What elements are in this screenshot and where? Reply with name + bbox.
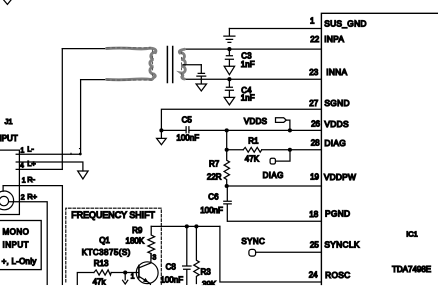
wire DIAG terminal to pin28	[276, 150, 290, 161]
wire shield to ground	[16, 162, 83, 171]
svg-text:22: 22	[310, 35, 319, 44]
node C4 junction	[227, 77, 231, 81]
node pin26/C5 junction	[225, 128, 229, 132]
svg-text:23: 23	[309, 68, 318, 77]
svg-text:R13: R13	[94, 259, 109, 268]
wire R13 to Q1 base	[111, 272, 139, 274]
wire link pin26 to pin28	[226, 130, 228, 149]
svg-text:C6: C6	[208, 192, 219, 201]
node R1 left junction	[225, 148, 229, 152]
power tag VDDS	[276, 118, 287, 123]
resistor R3	[194, 226, 199, 283]
wire C5 right to pin26	[189, 129, 321, 131]
svg-text:IC1: IC1	[406, 230, 418, 239]
capacitor (centre tap, unlabelled)	[197, 65, 206, 80]
ground under C3	[224, 66, 234, 74]
node Q1 base junction	[123, 270, 127, 274]
transformer T1 primary top lead	[62, 48, 107, 50]
svg-text:Q1: Q1	[99, 236, 110, 245]
svg-text:100nF: 100nF	[176, 134, 199, 143]
svg-text:INPUT: INPUT	[3, 241, 30, 250]
svg-text:1: 1	[20, 148, 24, 155]
transformer T1 secondary winding (grey)	[179, 49, 185, 79]
IC U1 box	[321, 13, 438, 284]
wire L+ row	[16, 168, 62, 170]
svg-text:SYNCLK: SYNCLK	[324, 240, 359, 250]
ground (input shield)	[78, 171, 88, 179]
wire INNA net (pin23)	[183, 78, 321, 80]
svg-text:R1: R1	[248, 137, 259, 146]
wire pin18 PGND	[228, 220, 322, 222]
svg-text:VDDS: VDDS	[244, 117, 267, 126]
transformer T1 primary bottom lead	[81, 79, 108, 81]
terminal DIAG (open square)	[270, 158, 275, 164]
svg-text:1: 1	[131, 274, 135, 281]
resistor R1	[243, 147, 262, 152]
resistor R7	[224, 150, 229, 186]
svg-text:VDDPW: VDDPW	[324, 172, 356, 182]
transformer T1 primary winding (grey)	[107, 48, 156, 80]
svg-text:1nF: 1nF	[241, 60, 255, 69]
ground under tap capacitor	[196, 79, 206, 91]
wire pin24 ROSC	[220, 226, 322, 282]
svg-text:25: 25	[310, 240, 319, 249]
ground under SGND node	[157, 130, 167, 144]
svg-text:18: 18	[309, 210, 318, 219]
svg-text:MONO: MONO	[3, 227, 30, 236]
svg-text:1: 1	[22, 177, 26, 184]
stub RCA ring to R-	[2, 186, 4, 192]
node C3 junction	[227, 47, 231, 51]
svg-text:1nF: 1nF	[241, 93, 255, 102]
resistor R13	[94, 270, 111, 275]
transistor Q1	[136, 262, 158, 284]
wire C5 left	[161, 129, 186, 131]
box MONO INPUT	[0, 221, 41, 270]
wire L- row	[16, 153, 80, 155]
svg-text:R+: R+	[27, 192, 37, 201]
node V2/L- corner blob	[79, 153, 82, 156]
wire R+ row	[9, 202, 48, 285]
svg-text:INPUT: INPUT	[0, 134, 18, 143]
capacitor C5	[186, 127, 189, 133]
capacitor C4	[225, 79, 233, 97]
svg-text:SGND: SGND	[324, 98, 349, 108]
svg-text:R3: R3	[201, 267, 212, 276]
ground (clipped, top-left)	[3, 0, 11, 4]
wire R1 left lead	[227, 149, 244, 151]
wire pin1 SUS_GND	[229, 28, 321, 30]
svg-text:TDA7498E: TDA7498E	[392, 265, 431, 274]
arrow stub below base node	[123, 273, 128, 285]
node DIAG link junction	[288, 148, 292, 152]
svg-text:24: 24	[309, 271, 318, 280]
connector J1 body bracket	[0, 150, 19, 214]
svg-text:SUS_GND: SUS_GND	[324, 19, 367, 29]
capacitor C8	[183, 226, 191, 284]
node C8 top junction	[185, 224, 189, 228]
svg-text:2: 2	[21, 195, 25, 202]
wire pin19 VDDPW	[227, 185, 322, 187]
svg-text:3: 3	[152, 255, 156, 262]
svg-text:27: 27	[309, 99, 318, 108]
svg-text:INNA: INNA	[326, 67, 347, 77]
svg-text:C5: C5	[182, 116, 193, 125]
svg-text:47k: 47k	[93, 277, 107, 286]
wire R9/C8/R3/ROSC net	[151, 225, 220, 227]
wire INPA net (pin22)	[183, 48, 321, 50]
svg-text:1: 1	[310, 16, 315, 25]
wire R- row	[3, 186, 62, 285]
wire V2 (L- to primary bottom)	[80, 80, 82, 155]
connector J1 top line	[0, 149, 19, 151]
node R3 top junction	[194, 224, 198, 228]
svg-text:J1: J1	[5, 117, 13, 126]
wire pin25 SYNCLK	[256, 251, 322, 253]
svg-text:DIAG: DIAG	[324, 138, 346, 148]
svg-text:R7: R7	[209, 159, 220, 168]
svg-text:ROSC: ROSC	[325, 270, 350, 280]
svg-text:26: 26	[311, 120, 320, 129]
wire R13 left lead	[77, 273, 94, 285]
svg-text:PGND: PGND	[325, 209, 350, 219]
svg-text:100nF: 100nF	[200, 206, 223, 215]
ground under C4	[224, 97, 234, 105]
svg-text:VDDS: VDDS	[324, 119, 349, 129]
connector RCA jack outer ring	[0, 191, 14, 210]
arrowhead Q1 emitter	[143, 278, 149, 283]
svg-text:19: 19	[310, 172, 319, 181]
svg-text:KTC3875(S): KTC3875(S)	[82, 248, 131, 257]
svg-text:SYNC: SYNC	[241, 237, 265, 246]
svg-text:INPA: INPA	[324, 34, 344, 44]
node R7 bottom / pin19 junction	[225, 184, 229, 188]
svg-text:L+: L+	[27, 159, 36, 168]
wire V1 (L+ to primary top)	[61, 49, 63, 170]
white mask clipping everything below y=284.5 except right part	[0, 285, 310, 294]
capacitor C3	[225, 49, 233, 66]
svg-text:FREQUENCY SHIFT: FREQUENCY SHIFT	[71, 210, 155, 220]
svg-text:47K: 47K	[245, 155, 260, 164]
wire SGND (pin27)	[161, 109, 321, 130]
svg-text:R9: R9	[132, 226, 143, 235]
svg-text:L-: L-	[27, 145, 34, 154]
svg-text:DIAG: DIAG	[263, 171, 284, 180]
connector RCA jack inner ring	[0, 196, 9, 205]
transformer secondary centre tap lead	[183, 64, 201, 66]
node C5 left junction	[159, 128, 163, 132]
svg-text:4: 4	[20, 163, 24, 170]
ground (earth bars) at pin1	[224, 29, 235, 43]
node VDDS tag junction	[288, 128, 292, 132]
transformer T1 primary winding speckle	[107, 48, 153, 80]
dashed box FREQUENCY SHIFT	[66, 208, 162, 284]
terminal SYNC (open circle)	[249, 249, 256, 256]
capacitor C6	[224, 186, 231, 221]
transformer T1 core	[167, 47, 172, 83]
resistor R9	[148, 226, 155, 258]
svg-text:22R: 22R	[207, 173, 222, 182]
svg-text:R-: R-	[27, 175, 35, 184]
svg-text:180K: 180K	[126, 237, 145, 246]
svg-text:+, L-Only: +, L-Only	[2, 257, 37, 266]
svg-text:C8: C8	[166, 263, 177, 272]
wire R1 right to pin28	[262, 149, 322, 151]
svg-text:100nF: 100nF	[160, 275, 183, 284]
svg-text:28: 28	[311, 139, 320, 148]
